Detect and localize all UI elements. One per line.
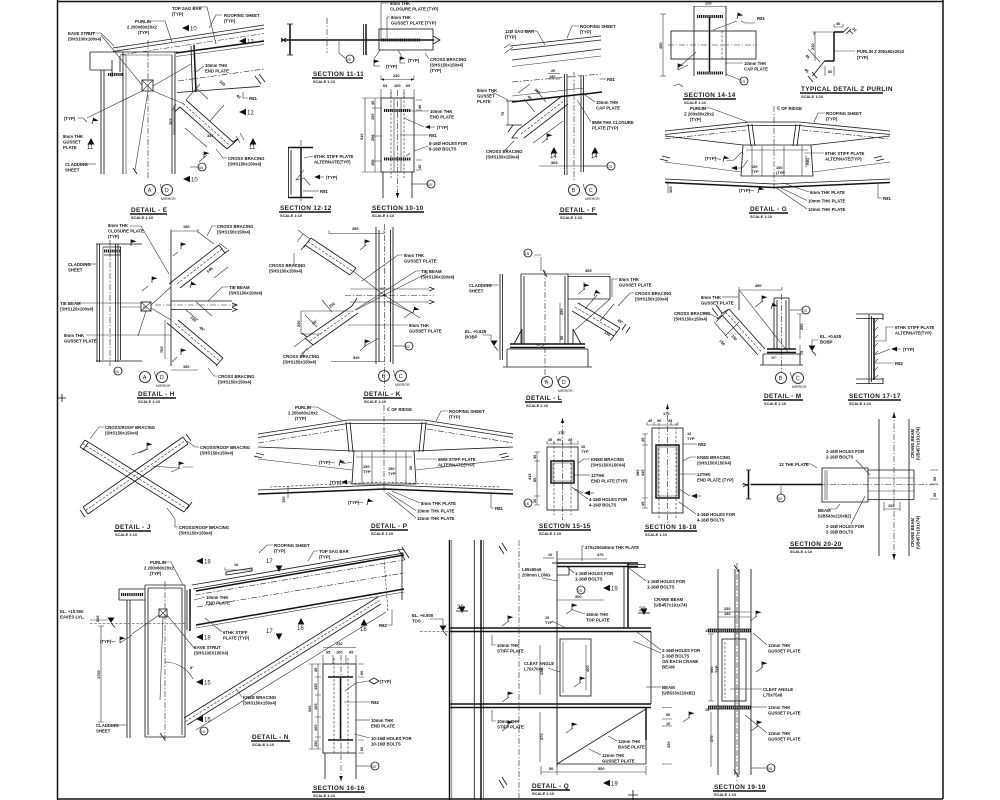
detail E: brace dim extension lines bbox=[186, 84, 224, 121]
svg-text:SHEET: SHEET bbox=[469, 289, 484, 294]
svg-text:SECTION 11-11: SECTION 11-11 bbox=[313, 71, 364, 78]
svg-text:8mm THK: 8mm THK bbox=[391, 15, 412, 20]
svg-text:160: 160 bbox=[313, 725, 318, 732]
svg-text:60: 60 bbox=[359, 747, 364, 751]
detail Q: gusset diagonal bbox=[557, 709, 646, 764]
detail H: gusset vertical edge bbox=[170, 231, 172, 366]
svg-text:BASE PLATE: BASE PLATE bbox=[618, 745, 645, 750]
svg-text:A: A bbox=[148, 188, 152, 194]
section 19-19: gusset band mid bbox=[708, 706, 751, 709]
detail E: column cap bbox=[117, 51, 178, 53]
svg-text:DETAIL - M: DETAIL - M bbox=[764, 393, 802, 400]
detail E: eave strut channel bbox=[90, 52, 120, 77]
svg-text:DETAIL - G: DETAIL - G bbox=[750, 206, 787, 213]
detail G: typ arrow mid bbox=[731, 166, 737, 170]
svg-text:GUSSET PLATE: GUSSET PLATE bbox=[768, 737, 801, 742]
section 10-10: end plate hatches bbox=[384, 109, 411, 112]
detail F: circle 23 bbox=[607, 162, 615, 170]
svg-text:11: 11 bbox=[87, 145, 94, 151]
svg-text:16: 16 bbox=[525, 501, 530, 506]
svg-text:CRANE BEAM: CRANE BEAM bbox=[910, 428, 915, 458]
svg-text:2-16Ø HOLES FOR: 2-16Ø HOLES FOR bbox=[662, 648, 701, 653]
detail G: rafter top flange right bbox=[811, 136, 890, 145]
svg-text:SHEET: SHEET bbox=[96, 729, 111, 734]
svg-text:WP: WP bbox=[536, 343, 542, 347]
svg-text:CLADDING: CLADDING bbox=[65, 162, 88, 167]
svg-text:230: 230 bbox=[393, 73, 400, 78]
svg-text:2-16Ø BOLTS: 2-16Ø BOLTS bbox=[826, 455, 854, 460]
detail H: top closure bbox=[96, 244, 142, 247]
section 14-14: bottom-left flag bbox=[678, 64, 684, 71]
detail H: cladding verticals bbox=[97, 244, 100, 362]
svg-text:6THK STIFF PLATE: 6THK STIFF PLATE bbox=[825, 151, 864, 156]
section 14-14: col flange dashed seen thru bbox=[721, 31, 723, 59]
detail E: roofing sheet lines bbox=[113, 25, 264, 48]
svg-text:(TYP): (TYP) bbox=[437, 125, 449, 130]
svg-text:GUSSET PLATE: GUSSET PLATE bbox=[768, 711, 801, 716]
svg-text:2-16Ø BOLTS: 2-16Ø BOLTS bbox=[662, 654, 690, 659]
svg-text:50: 50 bbox=[559, 336, 564, 340]
svg-text:18: 18 bbox=[204, 560, 211, 566]
svg-text:16: 16 bbox=[201, 729, 206, 734]
detail H: upper brace dim ext bbox=[198, 232, 227, 249]
svg-text:10-16Ø BOLTS: 10-16Ø BOLTS bbox=[371, 742, 401, 747]
svg-text:KNEE BRACING: KNEE BRACING bbox=[697, 455, 731, 460]
detail F: flag mid bbox=[547, 134, 553, 141]
svg-text:40: 40 bbox=[417, 165, 422, 169]
detail E: rafter bottom flange bbox=[177, 87, 260, 93]
svg-text:23: 23 bbox=[803, 308, 808, 313]
detail N: column centreline bbox=[164, 581, 166, 741]
section 20-20: column verticals bbox=[879, 419, 909, 556]
svg-text:CROSS BRACING: CROSS BRACING bbox=[269, 263, 306, 268]
svg-text:(SHS150X150X4): (SHS150X150X4) bbox=[697, 461, 732, 466]
section 18-18: typ arrow bbox=[691, 494, 697, 499]
svg-text:WP: WP bbox=[771, 356, 777, 360]
detail K: lower-left brace bbox=[313, 313, 358, 345]
svg-text:EL. +10.500: EL. +10.500 bbox=[60, 609, 84, 614]
svg-text:150: 150 bbox=[183, 224, 190, 229]
section 12-12: channel bottom flange bbox=[288, 197, 313, 199]
detail L: bubbles A D bbox=[542, 377, 553, 388]
svg-text:(SHS150x150x4): (SHS150x150x4) bbox=[243, 701, 277, 706]
section 16-16: outer gusset rect bbox=[323, 664, 356, 753]
z purlin: web bbox=[833, 32, 835, 61]
svg-text:765: 765 bbox=[159, 346, 164, 353]
svg-text:165: 165 bbox=[313, 703, 318, 710]
svg-text:14: 14 bbox=[591, 154, 598, 160]
detail Q: bottom beam flange bbox=[449, 704, 651, 708]
svg-text:12mm THK: 12mm THK bbox=[768, 731, 791, 736]
svg-text:KNEE BRACING: KNEE BRACING bbox=[591, 457, 625, 462]
detail P: rafter top flange bbox=[258, 447, 513, 451]
section 15-15: outer box bbox=[547, 447, 578, 510]
svg-text:R81: R81 bbox=[607, 77, 615, 82]
svg-text:R82: R82 bbox=[379, 623, 387, 628]
detail P: ridge purlin verticals bbox=[346, 422, 426, 452]
detail F: bubbles B C bbox=[569, 185, 580, 196]
svg-text:SECTION 20-20: SECTION 20-20 bbox=[790, 541, 842, 548]
section 10-10: left dim chain bbox=[365, 98, 375, 172]
section 17-17: bottom flange bbox=[856, 379, 883, 384]
svg-text:150: 150 bbox=[370, 114, 375, 121]
svg-text:TYP: TYP bbox=[388, 471, 396, 476]
detail P: typ arrow mid bbox=[341, 480, 347, 484]
svg-text:TYP: TYP bbox=[714, 665, 719, 673]
detail L: gusset diagonal bbox=[575, 299, 610, 330]
section 12-12: centreline bbox=[300, 140, 302, 203]
z purlin: top flange bbox=[834, 31, 844, 33]
svg-text:90: 90 bbox=[657, 418, 661, 423]
svg-text:2-16Ø HOLES FOR: 2-16Ø HOLES FOR bbox=[826, 449, 865, 454]
svg-text:375: 375 bbox=[709, 735, 714, 742]
svg-text:CAP PLATE: CAP PLATE bbox=[744, 67, 768, 72]
svg-text:SCALE 1:10: SCALE 1:10 bbox=[714, 792, 736, 797]
detail E: column centreline bbox=[147, 40, 149, 180]
detail Q: base plate right edge dark bbox=[645, 707, 647, 740]
detail Q: flags bbox=[508, 616, 514, 623]
detail P: roofing sheet bbox=[258, 420, 513, 434]
detail E: rafter end plate bbox=[194, 45, 196, 92]
svg-text:CLADDING: CLADDING bbox=[68, 262, 91, 267]
svg-text:50: 50 bbox=[778, 496, 783, 501]
svg-text:SCALE 1:10: SCALE 1:10 bbox=[750, 214, 772, 219]
margin cross mark bbox=[58, 394, 66, 402]
svg-text:40: 40 bbox=[417, 105, 422, 109]
detail P: mid slope lines bbox=[258, 459, 513, 470]
detail N: knee brace band bbox=[184, 597, 378, 718]
svg-text:DETAIL - L: DETAIL - L bbox=[526, 395, 562, 402]
svg-text:GUSSET PLATE: GUSSET PLATE bbox=[64, 339, 97, 344]
detail Q: beam mid box bbox=[650, 632, 652, 705]
detail G: bottom chord left bbox=[665, 179, 890, 184]
svg-text:CROSS/ROOF BRACING: CROSS/ROOF BRACING bbox=[179, 525, 230, 530]
svg-text:(SHS100x100x4): (SHS100x100x4) bbox=[229, 291, 263, 296]
svg-text:TIE BEAM: TIE BEAM bbox=[60, 301, 81, 306]
svg-text:CROSS BRACING: CROSS BRACING bbox=[218, 374, 255, 379]
svg-text:(SHS150x150x4): (SHS150x150x4) bbox=[217, 230, 251, 235]
sheet frame right border bbox=[942, 0, 944, 799]
svg-text:(TYP): (TYP) bbox=[705, 156, 717, 161]
detail E: rafter centreline bbox=[178, 69, 264, 81]
svg-text:40: 40 bbox=[836, 21, 840, 26]
svg-text:1-16Ø HOLES FOR: 1-16Ø HOLES FOR bbox=[647, 579, 686, 584]
svg-text:R81: R81 bbox=[429, 133, 437, 138]
svg-text:(SHS150x150x4): (SHS150x150x4) bbox=[283, 360, 317, 365]
svg-text:(TYP): (TYP) bbox=[449, 415, 461, 420]
svg-text:CLOSURE PLATE: CLOSURE PLATE bbox=[108, 229, 144, 234]
svg-text:CROSS/ROOF BRACING: CROSS/ROOF BRACING bbox=[105, 425, 156, 430]
detail E: eave strut hatch bbox=[108, 73, 123, 76]
svg-text:2-16Ø HOLES FOR: 2-16Ø HOLES FOR bbox=[826, 524, 865, 529]
section 16-16: beam bottom flange bbox=[328, 739, 353, 741]
detail M: circle 23 bbox=[802, 306, 810, 314]
section 16-16: typ diamond flag bbox=[369, 678, 379, 684]
svg-text:(TYP): (TYP) bbox=[826, 117, 838, 122]
svg-text:445: 445 bbox=[640, 469, 645, 476]
detail L: column top bbox=[521, 273, 568, 275]
svg-text:TYP: TYP bbox=[581, 449, 589, 454]
svg-text:SCALE 1:10: SCALE 1:10 bbox=[364, 399, 386, 404]
svg-text:100: 100 bbox=[336, 650, 343, 655]
section 18-18: outer box bbox=[652, 428, 683, 513]
svg-text:END PLATE (TYP): END PLATE (TYP) bbox=[697, 478, 734, 483]
svg-text:150: 150 bbox=[370, 160, 375, 167]
detail F: marker 14 left bbox=[551, 147, 558, 154]
section 14-14: column outer lines bbox=[694, 6, 726, 76]
section 11-11: left end I profile bbox=[289, 24, 291, 55]
detail G: ridge purlin verticals bbox=[748, 124, 800, 146]
svg-text:EL. +0.625: EL. +0.625 bbox=[465, 329, 487, 334]
svg-text:BOBP: BOBP bbox=[820, 340, 833, 345]
svg-text:END PLATE: END PLATE bbox=[371, 724, 395, 729]
svg-text:CLADDING: CLADDING bbox=[469, 283, 492, 288]
section 17-17: top flange bbox=[856, 314, 883, 319]
svg-text:10mm THK: 10mm THK bbox=[744, 61, 767, 66]
svg-text:SECTION 17-17: SECTION 17-17 bbox=[849, 393, 901, 400]
svg-text:(SHS150x150x4): (SHS150x150x4) bbox=[486, 155, 520, 160]
detail N: rafter bottom flange bbox=[196, 589, 404, 625]
svg-text:B: B bbox=[572, 188, 576, 194]
detail M: bubbles B C bbox=[776, 373, 787, 384]
svg-text:180: 180 bbox=[549, 74, 556, 79]
svg-text:8-16Ø BOLTS: 8-16Ø BOLTS bbox=[429, 147, 457, 152]
detail Q: top beam flange line bbox=[449, 628, 651, 632]
svg-text:(TYP): (TYP) bbox=[274, 549, 286, 554]
detail L: stiffener triangles bbox=[514, 329, 581, 344]
svg-text:GUSSET PLATE: GUSSET PLATE bbox=[701, 301, 734, 306]
section 11-11: typ flag 2 bbox=[400, 57, 406, 64]
detail M: top horizontal bbox=[774, 297, 789, 299]
section 11-11: centreline tick bbox=[326, 18, 328, 53]
svg-text:(SHS150x150x4): (SHS150x150x4) bbox=[105, 431, 139, 436]
svg-text:250: 250 bbox=[799, 324, 804, 331]
svg-text:SCALE 1:10: SCALE 1:10 bbox=[252, 742, 274, 747]
svg-text:12mm THK: 12mm THK bbox=[768, 643, 791, 648]
svg-text:CLOSURE PLATE (TYP): CLOSURE PLATE (TYP) bbox=[390, 7, 439, 12]
svg-text:8mm THK: 8mm THK bbox=[619, 277, 640, 282]
svg-text:L75x75x8: L75x75x8 bbox=[763, 693, 783, 698]
detail Q: column break marks top/bottom bbox=[499, 543, 507, 788]
svg-text:SECTION 16-16: SECTION 16-16 bbox=[313, 785, 365, 792]
svg-text:12: 12 bbox=[247, 40, 254, 46]
svg-text:B: B bbox=[779, 376, 783, 382]
detail E: section marker 12 top bbox=[239, 38, 246, 44]
svg-text:10: 10 bbox=[548, 552, 552, 557]
section 19-19: flags bbox=[756, 611, 762, 618]
svg-text:6THK STIFF PLATE: 6THK STIFF PLATE bbox=[895, 325, 934, 330]
svg-text:(TYP): (TYP) bbox=[386, 64, 398, 69]
section 19-19: circle 50 bbox=[767, 764, 775, 772]
svg-text:8-16Ø HOLES FOR: 8-16Ø HOLES FOR bbox=[429, 141, 468, 146]
svg-text:(TYP): (TYP) bbox=[295, 416, 307, 421]
svg-text:10: 10 bbox=[191, 178, 198, 184]
section 15-15: circle 16 bbox=[524, 499, 532, 507]
detail E: section marker 10 top bbox=[182, 25, 189, 31]
svg-text:170: 170 bbox=[663, 411, 670, 416]
section 15-15: inner SHS dashed bbox=[554, 442, 571, 515]
detail N: end plate at column bbox=[189, 589, 191, 631]
detail Q: angle cleat top bbox=[557, 566, 569, 575]
svg-text:20: 20 bbox=[551, 68, 555, 73]
detail Q: stiff vertical line mid bbox=[556, 551, 558, 767]
eaves level dashed line bbox=[420, 631, 484, 633]
detail Q: circle 20 bbox=[577, 586, 585, 594]
section 17-17: stiff plate dark bbox=[873, 318, 875, 380]
section 16-16: beam web hatched bbox=[340, 678, 342, 739]
detail G: roof sheet left slope bbox=[665, 122, 890, 131]
section 18-18: end plate tall box bbox=[656, 445, 679, 498]
svg-text:(TYP): (TYP) bbox=[430, 68, 442, 73]
svg-text:B: B bbox=[382, 374, 386, 380]
svg-text:SCALE 1:10: SCALE 1:10 bbox=[764, 401, 786, 406]
svg-text:(SHS150X150X4): (SHS150X150X4) bbox=[591, 463, 626, 468]
detail E: cross bracing member bbox=[186, 100, 233, 142]
detail M: gusset diagonal long bbox=[740, 291, 788, 352]
svg-text:2 200x60x20x2: 2 200x60x20x2 bbox=[144, 566, 174, 571]
section 16-16: centreline arrow bbox=[340, 655, 342, 781]
svg-text:ALTERNATE(TYP): ALTERNATE(TYP) bbox=[895, 331, 932, 336]
detail L: dim 250 bbox=[559, 303, 561, 329]
svg-text:(TYP): (TYP) bbox=[330, 480, 342, 485]
svg-text:8mm THK: 8mm THK bbox=[108, 223, 129, 228]
section 16-16: inner dashed verticals bbox=[334, 658, 348, 753]
svg-text:470x250x8mm THK PLATE: 470x250x8mm THK PLATE bbox=[585, 545, 639, 550]
detail L: column centreline bbox=[544, 270, 546, 382]
detail M: base plate bbox=[767, 349, 796, 353]
svg-text:(UB457x191x74): (UB457x191x74) bbox=[916, 426, 921, 460]
detail E: column break tick bbox=[133, 168, 137, 174]
detail E: cladding sheet lines bbox=[101, 70, 104, 174]
detail N: rafter end break bbox=[398, 547, 409, 560]
svg-text:CROSS BRACING: CROSS BRACING bbox=[228, 156, 265, 161]
detail F: vertical post lines bbox=[565, 74, 568, 175]
svg-text:17: 17 bbox=[266, 629, 273, 635]
svg-text:GUSSET PLATE: GUSSET PLATE bbox=[404, 259, 437, 264]
svg-text:1760: 1760 bbox=[96, 670, 101, 679]
svg-text:ROOFING SHEET: ROOFING SHEET bbox=[449, 409, 485, 414]
detail N: markers 16 16 bbox=[298, 618, 305, 625]
detail E: grid bubbles A D bbox=[145, 185, 156, 196]
svg-text:50: 50 bbox=[428, 182, 433, 187]
svg-text:ROOFING SHEET: ROOFING SHEET bbox=[224, 13, 260, 18]
detail K: tie beam dashes + arrows bbox=[350, 289, 429, 302]
detail K: thin crossing diagonals bbox=[353, 271, 420, 318]
detail Q: marker 19 top bbox=[603, 585, 610, 591]
svg-text:230: 230 bbox=[296, 321, 301, 328]
detail H: lower cross brace bbox=[178, 320, 223, 358]
section 10-10: centreline with arrow bbox=[397, 90, 399, 198]
svg-text:347: 347 bbox=[207, 133, 214, 138]
svg-text:TYPICAL DETAIL Z PURLIN: TYPICAL DETAIL Z PURLIN bbox=[801, 86, 893, 93]
section 11-11: beam line bbox=[281, 39, 434, 41]
svg-text:450: 450 bbox=[658, 43, 663, 50]
svg-text:CROSS/ROOF BRACING: CROSS/ROOF BRACING bbox=[200, 445, 251, 450]
section 12-12: channel web left bbox=[289, 147, 292, 198]
svg-text:60: 60 bbox=[828, 69, 832, 74]
section 14-14: left dim bbox=[660, 14, 666, 76]
svg-text:(SHS120x100x4): (SHS120x100x4) bbox=[60, 307, 94, 312]
section 15-15: centreline bbox=[562, 418, 564, 520]
svg-text:TYP: TYP bbox=[363, 469, 371, 474]
detail Q: column flange right pair bbox=[473, 540, 475, 800]
svg-text:EAVE STRUT: EAVE STRUT bbox=[68, 31, 95, 36]
svg-text:50: 50 bbox=[932, 493, 937, 497]
svg-text:PURLIN: PURLIN bbox=[135, 19, 151, 24]
svg-text:D: D bbox=[160, 375, 164, 381]
svg-text:R81: R81 bbox=[883, 196, 891, 201]
section 19-19: outer verticals bbox=[718, 569, 751, 775]
svg-text:TYP: TYP bbox=[687, 436, 695, 441]
svg-text:TOS: TOS bbox=[412, 619, 421, 624]
detail N: knee brace lower parallel thin bbox=[196, 612, 386, 730]
svg-text:6THK STIFF PLATE: 6THK STIFF PLATE bbox=[314, 154, 353, 159]
svg-text:4-16Ø BOLTS: 4-16Ø BOLTS bbox=[589, 503, 617, 508]
svg-text:17: 17 bbox=[266, 559, 273, 565]
svg-text:18: 18 bbox=[204, 636, 211, 642]
svg-text:PURLIN: PURLIN bbox=[690, 106, 706, 111]
detail Q: base gusset rect bbox=[557, 708, 646, 765]
svg-text:R81: R81 bbox=[757, 16, 765, 21]
section 20-20: right small dims bbox=[930, 470, 938, 499]
svg-text:C: C bbox=[796, 376, 800, 382]
detail L: base plate bbox=[510, 344, 585, 348]
detail G: rafter top flange left bbox=[665, 136, 743, 145]
svg-text:MIRROR: MIRROR bbox=[395, 383, 410, 387]
detail Q: column centreline bbox=[518, 540, 520, 800]
detail L: break tick on top bbox=[543, 270, 547, 277]
svg-text:100: 100 bbox=[394, 83, 401, 88]
detail L: flags bbox=[584, 284, 590, 291]
detail F: brace dim ext bbox=[518, 84, 546, 112]
section 20-20: beam centreline bbox=[742, 484, 939, 486]
svg-text:50: 50 bbox=[666, 712, 670, 717]
svg-text:CROSS BRACING: CROSS BRACING bbox=[283, 354, 320, 359]
detail E: bottom flags bbox=[204, 152, 210, 159]
svg-text:(SHS150x150x4): (SHS150x150x4) bbox=[635, 297, 669, 302]
svg-text:2-16Ø BOLTS: 2-16Ø BOLTS bbox=[826, 530, 854, 535]
detail K: WP node bbox=[383, 294, 385, 296]
svg-text:230: 230 bbox=[336, 641, 343, 646]
svg-text:(TYP): (TYP) bbox=[150, 571, 162, 576]
detail Q: left dims bbox=[539, 645, 541, 762]
svg-text:BEAM: BEAM bbox=[662, 685, 675, 690]
z purlin: dim 210 bbox=[812, 32, 834, 61]
svg-text:12mm THK: 12mm THK bbox=[768, 705, 791, 710]
svg-text:C: C bbox=[589, 188, 593, 194]
detail L: cladding lines bbox=[500, 274, 503, 360]
sheet frame left border bbox=[57, 0, 59, 800]
svg-text:305: 305 bbox=[168, 118, 173, 125]
svg-text:(TYP): (TYP) bbox=[319, 460, 331, 465]
detail P: bottom chord bbox=[258, 485, 513, 490]
detail L: brace band bbox=[578, 303, 620, 328]
svg-text:920: 920 bbox=[307, 706, 312, 713]
svg-text:20: 20 bbox=[578, 588, 583, 593]
svg-text:KNEE BRACING: KNEE BRACING bbox=[243, 695, 277, 700]
svg-text:SECTION 14-14: SECTION 14-14 bbox=[684, 92, 736, 99]
svg-text:10mm THK: 10mm THK bbox=[206, 595, 229, 600]
svg-text:SCALE 1:10: SCALE 1:10 bbox=[526, 403, 548, 408]
svg-text:50: 50 bbox=[199, 165, 204, 170]
detail F: purlin lines bbox=[512, 49, 601, 60]
svg-text:(TYP): (TYP) bbox=[903, 347, 915, 352]
svg-text:(SHS100x100x4): (SHS100x100x4) bbox=[421, 275, 455, 280]
svg-text:ROOFING SHEET: ROOFING SHEET bbox=[274, 543, 310, 548]
svg-text:6mm THK PLATE: 6mm THK PLATE bbox=[810, 190, 845, 195]
svg-text:(TYP): (TYP) bbox=[108, 234, 120, 239]
detail J: brace down-right end cuts bbox=[80, 440, 192, 512]
